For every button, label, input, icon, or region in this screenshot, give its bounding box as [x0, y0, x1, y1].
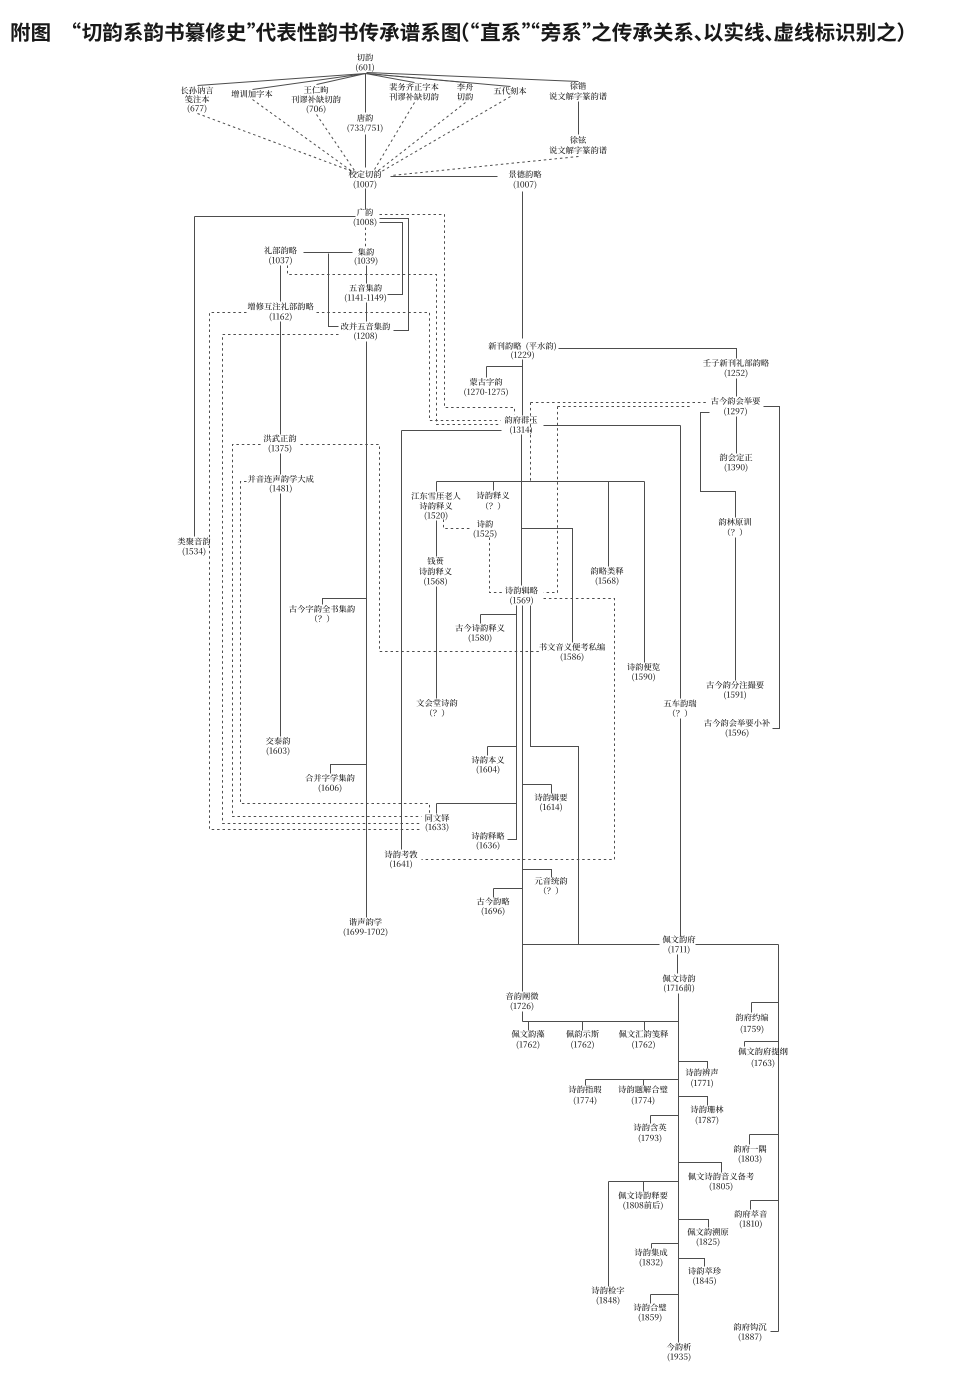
node 佩文诗韵音义备考(1805) row2 — [710, 1182, 733, 1191]
wire 洪武正韵→并音连声韵学大成 — [280, 454, 282, 475]
node 诗韵含英(1793) — [634, 1123, 667, 1131]
wire 佩文诗韵释要 stub — [643, 1182, 645, 1192]
wire →佩文诗韵音义备考 bracket — [679, 1163, 722, 1173]
wire 古今韵会举要→韵会定正 — [736, 417, 738, 454]
node 长孙讷言笺注本(677) row2 — [185, 95, 209, 103]
node 诗韵题解合璧(1774) — [618, 1085, 667, 1093]
wire 韵府一隅 stub — [749, 1135, 751, 1145]
wire 江东雪厓老人→诗韵 dashed — [444, 520, 471, 529]
node 古今韵会举要小补(1596) row2 — [726, 729, 749, 738]
wire →诗韵辨声 bracket — [679, 1062, 708, 1069]
wire →诗韵合璧 bracket — [651, 1294, 679, 1296]
node 李舟切韵 row2 — [457, 93, 473, 101]
node 古今字韵全书集韵(?) row2 — [315, 615, 329, 623]
wire 韵林原训→古今韵分注撮要 — [735, 538, 737, 681]
wire →诗韵释义 stub — [493, 482, 495, 491]
wire →书文音义便考私编 — [522, 529, 573, 643]
wire →韵府萃音 bracket — [751, 1200, 779, 1202]
node 古今韵分注撮要(1591) row2 — [724, 691, 746, 700]
wire →佩文韵府提纲 bracket — [745, 1041, 779, 1043]
node 古今韵会举要小补(1596) — [704, 719, 770, 727]
node 佩文汇韵笺释(1762) — [619, 1030, 668, 1038]
node 诗韵珊林(1787) row2 — [696, 1116, 719, 1125]
node 佩文汇韵笺释(1762) row2 — [632, 1041, 655, 1050]
wire 古今韵略 stub — [493, 889, 495, 898]
node 并音连声韵学大成(1481) row2 — [270, 484, 292, 493]
node 佩文韵府提纲(1763) — [738, 1047, 787, 1055]
node 谐声韵学(1699-1702) — [349, 918, 382, 926]
node 诗韵珊林(1787) — [691, 1106, 724, 1114]
wire 切韵→王仁昫 — [317, 74, 366, 85]
wire →韵府一隅 bracket — [750, 1134, 779, 1136]
node 诗韵合璧(1859) — [634, 1303, 667, 1311]
wire 1762 row bracket — [523, 1021, 679, 1023]
node 古今字韵全书集韵(?) — [289, 605, 355, 613]
node 佩文诗韵释要(1808前后) — [618, 1192, 667, 1200]
node 韵会定正(1390) row2 — [725, 463, 748, 472]
wire 集韵→改并五音集韵 left bracket — [329, 254, 339, 327]
wire →诗韵考敩 — [401, 431, 403, 850]
node 诗韵(1525) — [477, 520, 493, 528]
node 增训加字本 — [231, 90, 272, 98]
wire 增修互注→同文铎 dashed bus1 — [210, 313, 422, 830]
wire 集韵→五音集韵 — [366, 266, 368, 284]
wire →元音统韵 bracket — [523, 870, 552, 878]
wire 诗韵本义 stub — [487, 747, 489, 756]
node 江东雪厓老人诗韵释义(1520) — [411, 492, 460, 500]
node 蒙古字韵(1270-1275) row2 — [464, 388, 508, 397]
wire 广韵→韵府群玉 dashed — [380, 215, 515, 415]
node 五音集韵(1141-1149) row2 — [345, 294, 386, 303]
wire 王仁昫→校定切韵 dashed — [317, 115, 357, 174]
node 佩文诗韵音义备考(1805) — [688, 1172, 754, 1180]
wire 横线1481 — [437, 481, 645, 483]
wire 唐韵→校定切韵 — [365, 135, 367, 168]
node 切韵(601) row2 — [356, 63, 374, 72]
wire →韵略类释 — [608, 482, 610, 567]
node 古今诗韵释义(1580) — [456, 624, 505, 632]
wire →古今诗韵释义 bracket — [481, 614, 517, 616]
wire →古今字韵全书集韵 bracket — [323, 599, 367, 605]
node 佩文韵府提纲(1763) row2 — [752, 1059, 775, 1068]
node 钱蒉诗韵释义(1568) row3 — [424, 577, 447, 586]
wire 诗韵题解合璧 stub — [643, 1080, 645, 1086]
wire →类聚音韵 — [194, 217, 196, 537]
node 今韵析(1935) — [667, 1343, 691, 1351]
wire 诗韵指瑕 stub — [585, 1080, 587, 1086]
node 诗韵辑要(1614) — [535, 794, 568, 802]
wire 切韵→唐韵 — [365, 74, 367, 113]
wire 诗韵辑略→诗韵释略 line — [508, 606, 517, 840]
wire 钱蒉诗韵释义→文会堂诗韵 — [436, 587, 438, 699]
node 书文音义便考私编(1586) row2 — [561, 653, 584, 662]
wire 并音连声→同文铎 dashed bus4 — [241, 482, 430, 814]
node 音韵阐微(1726) row2 — [511, 1002, 534, 1011]
wire 广韵 left horizontal — [195, 216, 356, 218]
node 五车韵瑞(?) — [664, 700, 697, 708]
node 韵林原训(?) row2 — [728, 528, 742, 536]
wire 韵府群玉 right horizontal — [544, 425, 681, 427]
wire 释要/检字 bracket — [609, 1181, 679, 1183]
node 洪武正韵(1375) row2 — [269, 444, 292, 453]
node 谐声韵学(1699-1702) row2 — [344, 928, 388, 937]
node 合并字学集韵(1606) — [305, 774, 354, 782]
wire 古今韵会举要→古今韵会举要小补 bracket — [764, 407, 780, 729]
node 诗韵合璧(1859) row2 — [639, 1313, 662, 1322]
node 王仁昫刊谬补缺切韵(706) — [304, 86, 328, 94]
wire 诗韵→诗韵辑略 dashed — [490, 538, 505, 593]
wire →古今韵会举要 dashed row1 — [531, 402, 709, 404]
node 唐韵(733/751) — [357, 114, 373, 122]
wire →诗韵珊林 bracket — [679, 1097, 708, 1106]
node 切韵(601) — [357, 54, 373, 62]
wire 切韵→增训加字本 — [253, 74, 366, 90]
node 佩文韵溯原(1825) row2 — [697, 1238, 720, 1247]
node 佩文韵藻(1762) row2 — [517, 1041, 540, 1050]
wire 诗韵辑略→诗韵考敩 dashed — [422, 599, 615, 860]
node 韵府钩沉(1887) — [734, 1323, 767, 1331]
wire 改并五音集韵→同文铎 dashed bus2 — [223, 335, 422, 824]
node 诗韵集成(1832) — [635, 1248, 668, 1256]
wire 广韵→五音集韵 bracket — [380, 223, 403, 295]
node 古今韵会举要(1297) row2 — [724, 407, 747, 416]
node 元音统韵(?) row2 — [544, 887, 558, 895]
wire 佩文韵藻 stub — [528, 1022, 530, 1031]
node 文会堂诗韵(?) row2 — [430, 709, 444, 717]
wire 改并五音集韵→谐声韵学 — [366, 342, 368, 918]
node 诗韵检字(1848) — [592, 1286, 625, 1294]
node 诗韵萃珍(1845) — [688, 1267, 721, 1275]
node 诗韵释义(?) row2 — [486, 502, 500, 510]
node 新刊韵略(平水韵)(1229) row2 — [511, 351, 534, 360]
wire 佩文诗韵→今韵析 main vertical — [678, 994, 680, 1343]
wire →诗韵含英 bracket — [651, 1115, 679, 1117]
wire 佩文韵府 left horizontal — [523, 944, 660, 946]
node 诗韵辨声(1771) — [686, 1069, 719, 1077]
node 诗韵考敩(1641) — [385, 851, 418, 859]
node 佩文诗韵(1716前) — [663, 975, 696, 983]
wire 长孙讷言→校定切韵 dashed — [198, 114, 353, 172]
node 佩文韵府(1711) — [663, 935, 696, 943]
node 五音集韵(1141-1149) — [349, 284, 382, 292]
wire 校定切韵→广韵 — [365, 189, 367, 210]
node 壬子新刊礼部韵略(1252) — [703, 359, 769, 367]
node 江东雪厓老人诗韵释义(1520) row2 — [420, 502, 453, 510]
wire 增修互注→洪武正韵 — [280, 322, 282, 435]
node 新刊韵略(平水韵)(1229) — [489, 342, 556, 351]
wire 并音连声→交泰韵 — [280, 494, 282, 737]
node 洪武正韵(1375) — [264, 435, 297, 443]
wire 佩文韵府 right horizontal — [696, 944, 779, 946]
node 音韵阐微(1726) — [506, 992, 539, 1000]
node 诗韵便览(1590) — [627, 663, 660, 671]
node 诗韵释义(?) — [477, 492, 510, 500]
node 韵略类释(1568) row2 — [596, 577, 619, 586]
node 韵府萃音(1810) row2 — [740, 1220, 762, 1229]
node 诗韵便览(1590) row2 — [632, 673, 655, 682]
node 书文音义便考私编(1586) — [539, 643, 605, 651]
wire 新刊韵略→韵府群玉 — [522, 360, 524, 416]
wire →韵府约编 bracket — [752, 1002, 779, 1004]
wire →诗韵萃珍 bracket — [679, 1259, 705, 1267]
node 佩文诗韵(1716前) row2 — [664, 984, 694, 993]
node 景德韵略(1007) row2 — [514, 181, 537, 190]
wire 右侧长竖线 — [778, 945, 780, 1332]
node 韵府群玉(1314) row2 — [510, 426, 532, 435]
node 诗韵题解合璧(1774) row2 — [632, 1096, 655, 1105]
node 佩文诗韵释要(1808前后) row2 — [623, 1201, 662, 1210]
node 今韵析(1935) row2 — [668, 1353, 691, 1362]
node 交泰韵(1603) — [266, 737, 290, 745]
node 诗韵本义(1604) — [472, 756, 505, 764]
wire 增修互注→韵府群玉 dashed — [317, 313, 501, 421]
node 并音连声韵学大成(1481) — [248, 475, 314, 483]
node 裴务齐正字本刊谬补缺切韵 row2 — [389, 93, 438, 101]
node 广韵(1008) — [357, 208, 373, 216]
node 五车韵瑞(?) row2 — [673, 709, 687, 717]
wire →诗韵本义 bracket — [488, 746, 517, 748]
node 韵府萃音(1810) — [734, 1210, 767, 1218]
node 诗韵(1525) row2 — [474, 530, 497, 539]
node 古今韵略(1696) — [477, 897, 510, 905]
node 蒙古字韵(1270-1275) — [470, 378, 503, 386]
node 裴务齐正字本刊谬补缺切韵 — [389, 83, 438, 91]
node 徐锴说文解字篆韵谱 row2 — [549, 92, 607, 100]
node 广韵(1008) row2 — [354, 218, 377, 227]
node 韵林原训(?) — [719, 518, 751, 526]
wire 诗韵辑要 stub — [551, 785, 553, 794]
wire 佩文汇韵笺释 stub — [644, 1022, 646, 1031]
node 诗韵指瑕(1774) — [569, 1086, 602, 1094]
wire 景德韵略→新刊韵略 — [522, 192, 524, 339]
node 类聚音韵(1534) row2 — [183, 547, 206, 556]
node 长孙讷言笺注本(677) — [181, 86, 213, 94]
node 集韵(1039) — [358, 248, 374, 256]
node 韵府约编(1759) — [736, 1013, 769, 1021]
node 江东雪厓老人诗韵释义(1520) row3 — [425, 512, 448, 521]
node 诗韵含英(1793) row2 — [639, 1134, 662, 1143]
wire 诗韵合璧 stub — [650, 1295, 652, 1304]
node 韵府约编(1759) row2 — [741, 1025, 764, 1034]
wire 礼部韵略→韵府群玉 dashed — [288, 266, 501, 425]
node 集韵(1039) row2 — [355, 257, 378, 266]
node 徐锴说文解字篆韵谱 — [570, 82, 586, 90]
wire →诗韵辑要 bracket — [523, 784, 552, 786]
node 合并字学集韵(1606) row2 — [319, 784, 342, 793]
node 韵会定正(1390) — [720, 453, 753, 461]
wire →韵府钩沉 hook — [771, 1331, 779, 1333]
node 改并五音集韵(1208) row2 — [354, 332, 377, 341]
node 韵略类释(1568) — [591, 567, 624, 575]
node 增修互注礼部韵略(1162) — [248, 303, 314, 311]
wire 礼部韵略—集韵 — [304, 252, 353, 254]
node 改并五音集韵(1208) — [341, 322, 390, 330]
node 古今韵略(1696) row2 — [482, 907, 505, 916]
node 古今诗韵释义(1580) row2 — [469, 634, 492, 643]
wire 切韵→五代刻本 — [367, 74, 511, 87]
node 韵府一隅(1803) — [734, 1145, 767, 1153]
node 元音统韵(?) — [535, 877, 568, 885]
wire 切韵→李舟切韵 — [367, 74, 466, 83]
wire 五车韵瑞→佩文韵府 — [680, 719, 682, 937]
node 钱蒉诗韵释义(1568) — [427, 557, 443, 565]
node 诗韵辑略(1569) — [505, 587, 538, 595]
wire →诗韵集成 bracket — [652, 1243, 679, 1245]
wire 裴务齐→校定切韵 dashed — [375, 103, 415, 170]
node 壬子新刊礼部韵略(1252) row2 — [725, 369, 748, 378]
node 诗韵辑要(1614) row2 — [540, 803, 562, 812]
wire 增训加字本→校定切韵 dashed — [253, 100, 354, 173]
wire 佩韵示斯 stub — [582, 1022, 584, 1031]
node 诗韵萃珍(1845) row2 — [693, 1277, 716, 1286]
node 王仁昫刊谬补缺切韵(706) row2 — [291, 96, 340, 104]
node 佩韵示斯(1762) — [566, 1030, 599, 1038]
node 五代刻本 — [494, 87, 527, 95]
node 诗韵辑略(1569) row2 — [510, 596, 533, 605]
wire 切韵→徐锴 — [367, 73, 579, 82]
node 古今韵会举要(1297) — [711, 397, 760, 405]
wire 同文铎 stub — [436, 804, 438, 814]
node 诗韵考敩(1641) row2 — [390, 860, 412, 869]
node 长孙讷言笺注本(677) row3 — [188, 104, 207, 113]
wire →同文铎 bracket — [437, 803, 517, 805]
node 佩文韵府(1711) row2 — [668, 945, 689, 954]
wire 诗韵辑略→佩文韵府 path — [531, 606, 579, 945]
wire 五代刻本→校定切韵 dashed — [382, 97, 511, 172]
node 王仁昫刊谬补缺切韵(706) row3 — [307, 105, 326, 114]
node 诗韵检字(1848) row2 — [597, 1296, 620, 1305]
wire dashed v529 — [530, 403, 532, 482]
wire →五车韵瑞 — [680, 426, 682, 699]
wire →古今韵略 bracket — [494, 888, 523, 890]
wire 徐锴→徐铉 — [578, 102, 580, 135]
wire 古今诗韵释义 stub — [480, 615, 482, 624]
node 景德韵略(1007) — [509, 170, 542, 178]
wire 广韵→集韵 dashed — [365, 228, 367, 248]
wire 1774 row bracket — [586, 1079, 679, 1081]
node 韵府一隅(1803) row2 — [739, 1155, 762, 1164]
wire →诗韵便览 — [644, 482, 646, 663]
wire 音韵阐微 bottom stub — [522, 1012, 524, 1022]
wire 诗韵集成 stub — [651, 1244, 653, 1249]
node 同文铎(1633) — [425, 814, 449, 822]
wire 佩文韵府提纲 stub — [744, 1042, 746, 1047]
node 同文铎(1633) row2 — [426, 823, 449, 832]
node 徐铉说文解字篆韵谱 — [570, 136, 586, 144]
wire 李舟切韵→校定切韵 dashed — [379, 103, 466, 171]
wire 洪武正韵→书文音义便考私编 dashed — [301, 445, 541, 652]
wire →诗韵检字 — [608, 1182, 610, 1287]
wire 五音集韵→改并五音集韵 — [366, 303, 368, 322]
wire 江东雪厓老人→钱蒉诗韵释义 — [436, 521, 438, 557]
wire 礼部韵略→增修互注礼部韵略 — [280, 266, 282, 302]
node 李舟切韵 — [457, 83, 473, 91]
wire 壬子→古今韵会举要 — [736, 379, 738, 397]
node 诗韵辨声(1771) row2 — [691, 1079, 713, 1088]
title — [12, 22, 904, 42]
wire 韵府群玉 left horizontal — [402, 430, 502, 432]
node 诗韵释略(1636) row2 — [477, 841, 500, 850]
node 韵府钩沉(1887) row2 — [739, 1333, 762, 1342]
wire →佩文韵溯原 bracket — [679, 1220, 709, 1228]
wire 新刊韵略→蒙古字韵 bracket — [487, 366, 523, 368]
node 韵府群玉(1314) — [505, 416, 538, 424]
node 佩韵示斯(1762) row2 — [571, 1041, 594, 1050]
wire 蒙古字韵 stub — [486, 367, 488, 378]
node 佩文韵藻(1762) — [512, 1030, 545, 1038]
node 诗韵集成(1832) row2 — [640, 1258, 663, 1267]
node 诗韵本义(1604) row2 — [477, 765, 500, 774]
wire 韵府约编 stub — [751, 1003, 753, 1013]
node 古今韵分注撮要(1591) — [706, 681, 763, 689]
wire 洪武正韵→同文铎 dashed bus3 — [233, 445, 422, 817]
wire 古今韵会举要→韵林原训 bracket — [701, 413, 736, 518]
wire 诗韵含英 stub — [650, 1116, 652, 1124]
wire →合并字学集韵 bracket — [331, 765, 367, 774]
node 交泰韵(1603) row2 — [267, 747, 290, 756]
node 增修互注礼部韵略(1162) row2 — [270, 313, 292, 322]
wire 徐铉→校定切韵 dashed — [392, 157, 579, 176]
node 校定切韵(1007) — [349, 170, 382, 178]
wire 诗韵辑略→音韵阐微 long vertical — [522, 606, 524, 992]
node 钱蒉诗韵释义(1568) row2 — [419, 568, 452, 576]
node 文会堂诗韵(?) — [417, 699, 458, 707]
wire 佩文韵府→佩文诗韵 — [677, 955, 679, 974]
wire →古今韵会举要 dashed row2 — [558, 406, 691, 408]
node 校定切韵(1007) row2 — [354, 180, 377, 189]
node 类聚音韵(1534) — [178, 537, 211, 545]
node 礼部韵略(1037) row2 — [269, 256, 292, 265]
wire 诗韵辑略→dashed v557 — [544, 407, 558, 593]
wire 韵府群玉→诗韵辑略 — [521, 435, 523, 586]
wire →江东雪厓老人 stub — [436, 482, 438, 492]
wire 广韵→改并五音集韵 outer bracket — [380, 219, 409, 331]
node 诗韵指瑕(1774) row2 — [574, 1096, 597, 1105]
wire 校定切韵—景德韵略 — [391, 176, 498, 178]
node 礼部韵略(1037) — [264, 247, 297, 255]
wire 韵府萃音 stub — [750, 1201, 752, 1210]
wire 切韵→长孙讷言笺注本 — [198, 74, 366, 86]
node 唐韵(733/751) row2 — [347, 124, 382, 133]
node 诗韵释略(1636) — [472, 832, 505, 840]
node 佩文韵溯原(1825) — [687, 1228, 728, 1236]
wire 切韵→裴务齐 — [366, 74, 415, 83]
node 徐铉说文解字篆韵谱 row2 — [549, 146, 607, 154]
wire 新刊韵略→壬子新刊礼部韵略 — [559, 349, 737, 359]
